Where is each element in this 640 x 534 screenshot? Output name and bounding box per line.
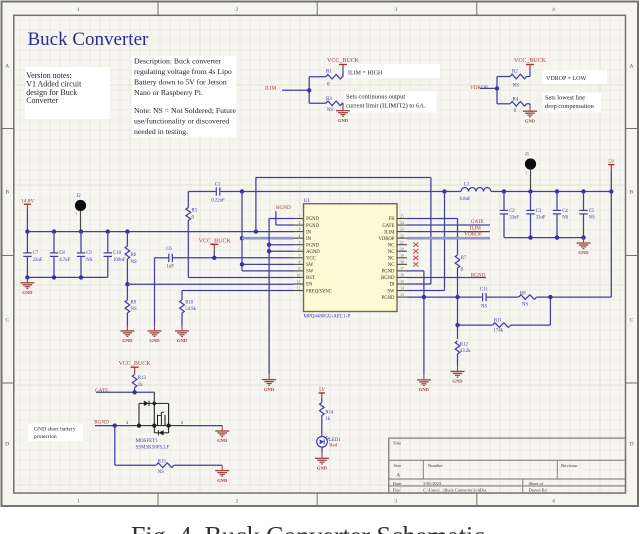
svg-text:R13: R13 — [138, 376, 147, 381]
svg-text:9: 9 — [299, 267, 301, 271]
node bus R6 — [125, 229, 129, 233]
LED LED1 Red — [317, 437, 328, 448]
resistor R1 — [326, 74, 343, 79]
svg-text:Description: Buck converter: Description: Buck converter — [134, 57, 222, 66]
resistor R14 — [321, 399, 323, 403]
svg-text:5/01/2023: 5/01/2023 — [423, 481, 442, 486]
svg-text:Date:: Date: — [393, 481, 403, 486]
svg-text:Sheet of: Sheet of — [529, 481, 544, 486]
svg-text:RGND: RGND — [94, 420, 109, 426]
svg-text:C1: C1 — [215, 182, 221, 187]
capacitor C7 — [26, 232, 28, 253]
wire pin5 row — [269, 244, 293, 246]
svg-text:GND: GND — [122, 338, 133, 343]
svg-text:R12: R12 — [460, 342, 469, 347]
svg-text:RGND: RGND — [381, 276, 395, 281]
svg-text:NS: NS — [131, 260, 137, 265]
ground R12 — [457, 366, 459, 371]
wire ILIM junction vertical — [308, 77, 310, 104]
svg-text:C5: C5 — [589, 209, 595, 214]
svg-text:4: 4 — [552, 499, 555, 505]
svg-text:R5: R5 — [192, 209, 198, 214]
node bus C10 — [106, 229, 110, 233]
wire rail left — [188, 191, 216, 193]
node AGND pin5 — [267, 243, 271, 247]
node pgnd13 b — [455, 295, 459, 299]
capacitor C1 — [215, 187, 217, 195]
wire C6 branch to ground — [154, 258, 156, 326]
svg-text:PGND: PGND — [306, 224, 319, 229]
svg-text:LED1: LED1 — [329, 438, 342, 443]
svg-text:IN: IN — [306, 237, 312, 242]
svg-text:R15: R15 — [158, 459, 167, 464]
text note sets lowest line — [543, 93, 601, 113]
node IN thick — [240, 236, 244, 240]
resistor R13 — [134, 373, 136, 376]
svg-text:20: 20 — [400, 247, 404, 251]
wire DI to pin — [407, 283, 431, 285]
text note gnd short protection — [28, 424, 83, 442]
wire BST row — [188, 276, 293, 278]
svg-text:C2: C2 — [509, 209, 515, 214]
svg-text:GND: GND — [419, 387, 430, 392]
wire VDROP row thick — [407, 237, 490, 240]
svg-text:PGND: PGND — [306, 243, 319, 248]
ground R9 — [126, 326, 128, 331]
text note VDROP = LOW — [543, 70, 607, 84]
svg-text:24: 24 — [400, 221, 404, 225]
ground (VDROP block) — [529, 104, 531, 106]
wire rgnd drop — [114, 426, 116, 466]
svg-text:11: 11 — [297, 280, 301, 284]
svg-text:100nF: 100nF — [113, 258, 126, 263]
svg-text:3: 3 — [394, 499, 397, 505]
wire top link horizontal — [256, 177, 431, 179]
svg-text:D: D — [5, 442, 9, 448]
svg-text:Sets lowest line: Sets lowest line — [545, 95, 585, 102]
node pgnd13 a — [422, 295, 426, 299]
svg-text:1uF: 1uF — [167, 265, 175, 270]
title block — [389, 438, 626, 493]
svg-text:Red: Red — [329, 444, 338, 449]
svg-text:GATE: GATE — [95, 388, 108, 394]
svg-text:VCC: VCC — [306, 257, 316, 262]
node R11 junction — [455, 323, 459, 327]
svg-text:1: 1 — [77, 499, 80, 505]
wire ILIM row — [407, 231, 490, 233]
node rgnd junction — [113, 423, 117, 427]
wire VDROP junction vertical — [496, 77, 498, 104]
ground (ILIM block) — [342, 103, 344, 105]
svg-text:GND: GND — [149, 338, 160, 343]
resistor R4 — [497, 103, 510, 105]
svg-text:J2: J2 — [76, 194, 81, 199]
svg-text:NS: NS — [158, 470, 164, 475]
svg-text:FREQ/SYNC: FREQ/SYNC — [306, 289, 332, 294]
svg-text:14: 14 — [400, 287, 404, 291]
node fb div — [548, 295, 552, 299]
wire C1 junction down — [241, 192, 243, 271]
svg-text:8: 8 — [299, 260, 301, 264]
text note ILIM = HIGH — [344, 64, 440, 78]
wire gate row — [96, 391, 154, 393]
node bus C9 — [79, 229, 83, 233]
svg-text:C:\Users\ ..\Buck Converter.Sc: C:\Users\ ..\Buck Converter.SchDoc — [423, 488, 487, 493]
svg-text:Battery down to 5V for Jetson: Battery down to 5V for Jetson — [134, 78, 227, 87]
wire SW to pin — [407, 290, 445, 292]
svg-text:R9: R9 — [131, 300, 137, 305]
svg-text:NC: NC — [388, 250, 395, 255]
svg-text:C4: C4 — [562, 209, 568, 214]
node bottom bus C8 — [52, 275, 56, 279]
svg-text:VDROP: VDROP — [464, 231, 482, 237]
svg-text:C10: C10 — [113, 251, 122, 256]
svg-text:R4: R4 — [513, 98, 519, 103]
svg-text:NC: NC — [388, 257, 395, 262]
svg-text:12: 12 — [297, 287, 301, 291]
capacitor C6 — [168, 254, 170, 262]
ground R10 — [181, 326, 183, 331]
wire R11 row — [458, 324, 493, 326]
node bottom bus C9 — [79, 275, 83, 279]
capacitor C2 — [503, 192, 505, 211]
svg-text:2: 2 — [126, 420, 128, 425]
svg-text:SW: SW — [306, 263, 314, 268]
svg-text:GATE: GATE — [382, 224, 394, 229]
capacitor C9 — [80, 232, 82, 253]
node rail x444 — [442, 189, 446, 193]
wire gnd drop x424 — [423, 297, 425, 374]
svg-text:4.7uF: 4.7uF — [59, 258, 70, 263]
svg-text:23: 23 — [400, 228, 404, 232]
svg-text:1: 1 — [299, 215, 301, 219]
svg-text:Title: Title — [393, 440, 402, 445]
svg-text:SW: SW — [306, 270, 314, 275]
wire C11 to R8 — [486, 296, 518, 298]
wire DI vertical — [430, 178, 432, 285]
svg-text:4: 4 — [552, 7, 555, 13]
svg-text:Size: Size — [393, 463, 401, 468]
resistor R8 — [519, 295, 537, 300]
svg-text:Nano or Raspberry Pi.: Nano or Raspberry Pi. — [134, 88, 203, 97]
svg-text:R7: R7 — [461, 256, 467, 261]
svg-text:3: 3 — [299, 228, 301, 232]
svg-text:7: 7 — [299, 254, 301, 258]
node obus C5 — [581, 235, 585, 239]
svg-text:GND: GND — [22, 290, 33, 295]
svg-text:R14: R14 — [325, 410, 334, 415]
ground mosfet — [221, 426, 223, 431]
svg-text:GND: GND — [317, 466, 328, 471]
resistor R12 — [455, 341, 460, 354]
svg-text:4: 4 — [299, 234, 301, 238]
svg-text:R3: R3 — [326, 97, 332, 102]
svg-text:1: 1 — [75, 213, 77, 217]
svg-text:2: 2 — [299, 221, 301, 225]
resistor R15 — [156, 463, 174, 468]
wire PGND17 corner — [407, 270, 424, 272]
svg-text:GND: GND — [217, 438, 228, 443]
svg-text:VDROP: VDROP — [379, 237, 395, 242]
svg-text:NS: NS — [86, 258, 92, 263]
wire R15 row right — [174, 464, 222, 466]
node SW row8 — [240, 262, 244, 266]
node out 5V — [609, 189, 613, 193]
svg-text:FB: FB — [389, 217, 395, 222]
resistor R11 — [493, 323, 511, 328]
svg-text:0.22uF: 0.22uF — [211, 199, 225, 204]
svg-text:drop compensation: drop compensation — [545, 103, 595, 110]
svg-text:10: 10 — [297, 274, 301, 278]
svg-text:Drawn By:: Drawn By: — [529, 488, 548, 493]
ground R15 — [221, 465, 223, 470]
svg-text:A: A — [629, 64, 633, 70]
svg-text:SSM3K56FS,LF: SSM3K56FS,LF — [136, 445, 170, 450]
wire top link vertical — [255, 178, 257, 232]
wire 5V net vertical — [610, 171, 612, 297]
resistor R10 — [181, 291, 183, 300]
svg-text:ILIM: ILIM — [265, 86, 277, 92]
node bus C7 — [25, 229, 29, 233]
svg-text:NS: NS — [327, 108, 334, 113]
svg-text:IN: IN — [306, 230, 312, 235]
wire 14.8V to bus — [26, 211, 28, 232]
svg-text:5: 5 — [299, 241, 301, 245]
svg-text:GND: GND — [338, 118, 349, 123]
svg-text:GND: GND — [578, 250, 589, 255]
svg-text:15: 15 — [400, 280, 404, 284]
svg-text:Note: NS = Not Soldered; Futur: Note: NS = Not Soldered; Future — [134, 106, 237, 115]
node bus SW-col — [254, 229, 258, 233]
wire GATE row — [407, 224, 490, 226]
node obus C3 — [528, 235, 532, 239]
wire R11 to riser — [511, 324, 551, 326]
svg-text:NS: NS — [562, 216, 568, 221]
svg-text:C3: C3 — [536, 209, 542, 214]
resistor R9 — [126, 284, 128, 300]
svg-text:21: 21 — [400, 241, 404, 245]
svg-text:needed in testing.: needed in testing. — [134, 127, 188, 136]
svg-text:NS: NS — [513, 83, 520, 88]
svg-text:VDROP = LOW: VDROP = LOW — [546, 76, 586, 82]
svg-text:Converter: Converter — [26, 96, 58, 105]
wire SW row8 — [242, 263, 294, 265]
svg-text:protection: protection — [34, 434, 57, 440]
svg-text:NS: NS — [131, 307, 137, 312]
svg-text:174k: 174k — [493, 328, 503, 333]
resistor R2 — [510, 74, 527, 79]
svg-text:NS: NS — [589, 216, 595, 221]
svg-text:VCC_BUCK: VCC_BUCK — [514, 58, 547, 64]
wire input bottom bus — [27, 276, 107, 278]
svg-text:VCC_BUCK: VCC_BUCK — [119, 361, 152, 367]
node bottom bus C7 — [25, 275, 29, 279]
ground C6 branch — [154, 326, 156, 331]
wire R8 to corner — [537, 296, 612, 298]
svg-text:GND: GND — [525, 118, 536, 123]
svg-text:EN: EN — [306, 283, 313, 288]
wire RGND row — [407, 276, 486, 278]
svg-text:GATE: GATE — [471, 219, 484, 225]
svg-text:19: 19 — [400, 254, 404, 258]
wire R2 to VCC_BUCK — [529, 71, 531, 77]
svg-text:1k: 1k — [138, 383, 143, 388]
resistor R7 — [455, 255, 460, 268]
svg-text:R1: R1 — [326, 70, 332, 75]
svg-text:54.9k: 54.9k — [185, 307, 196, 312]
wire L1 to output — [491, 191, 611, 193]
svg-text:R8: R8 — [520, 291, 526, 296]
wire rail C1 to L1 — [220, 191, 461, 193]
inductor L1 — [461, 188, 491, 192]
node rail x242 — [240, 189, 244, 193]
svg-text:A: A — [397, 473, 401, 478]
node R6-EN — [125, 282, 129, 286]
text note version box — [25, 67, 110, 119]
svg-text:13: 13 — [400, 293, 404, 297]
svg-text:43.2k: 43.2k — [460, 349, 471, 354]
svg-text:C6: C6 — [166, 247, 172, 252]
node ILIM junction — [307, 88, 311, 92]
wire SW riser — [444, 192, 446, 291]
svg-text:A: A — [5, 64, 9, 70]
svg-text:6: 6 — [299, 247, 301, 251]
svg-text:C: C — [630, 318, 634, 324]
node AGND pin6 — [267, 249, 271, 253]
svg-text:B: B — [5, 190, 9, 196]
svg-text:C8: C8 — [59, 251, 65, 256]
svg-text:MPQ4480GU-AEC1-P: MPQ4480GU-AEC1-P — [304, 315, 351, 320]
wire pin6 row — [269, 250, 293, 252]
wire long AGND vertical — [268, 219, 270, 375]
wire PGND13 row — [407, 296, 483, 298]
svg-text:1k: 1k — [325, 417, 330, 422]
svg-text:RGND: RGND — [276, 205, 291, 211]
svg-text:Sets continuous output: Sets continuous output — [346, 94, 405, 101]
svg-text:L1: L1 — [464, 183, 470, 188]
wire input top bus — [27, 231, 293, 233]
svg-text:Buck Converter: Buck Converter — [28, 29, 150, 50]
wire output bottom bus — [504, 237, 584, 239]
svg-text:C11: C11 — [480, 288, 488, 293]
svg-text:PGND: PGND — [382, 296, 395, 301]
ground output — [583, 238, 585, 243]
wire FB drop — [457, 297, 459, 339]
node out C4 — [555, 189, 559, 193]
wire LED to gnd — [321, 447, 323, 453]
svg-text:GND: GND — [452, 379, 463, 384]
svg-text:R2: R2 — [512, 69, 518, 74]
wire VCC row right — [172, 257, 293, 259]
wire R15 row left — [115, 464, 156, 466]
svg-text:33uF: 33uF — [536, 216, 546, 221]
svg-text:3: 3 — [394, 7, 397, 13]
op-amp U1 buck regulator MPQ4480GU-AEC1-P — [304, 204, 398, 312]
wire VCC row left — [155, 257, 169, 259]
svg-text:GND: GND — [264, 387, 275, 392]
svg-text:Fig. 4. Buck Converter Schem: Fig. 4. Buck Converter Schematic — [131, 522, 485, 534]
wire IN thick row — [242, 237, 294, 240]
svg-text:25: 25 — [400, 215, 404, 219]
resistor R5 — [187, 192, 189, 208]
svg-text:use/functionality or discovere: use/functionality or discovered — [134, 117, 229, 126]
svg-text:GND short battery: GND short battery — [34, 427, 76, 433]
capacitor C5 — [583, 192, 585, 211]
transistor MOSFET1 SSM3K56FS,LF — [153, 392, 155, 403]
svg-text:PGND: PGND — [382, 270, 395, 275]
svg-text:U1: U1 — [304, 198, 311, 204]
capacitor C11 — [482, 293, 484, 301]
svg-text:AGND: AGND — [306, 250, 320, 255]
wire PGND pin1 corner — [269, 218, 293, 220]
capacitor C3 — [530, 192, 532, 211]
wire SW row9 corner — [242, 270, 294, 272]
svg-text:C: C — [5, 318, 9, 324]
wire FB corner — [407, 218, 458, 220]
resistor R6 — [126, 232, 128, 246]
svg-text:BST: BST — [306, 276, 315, 281]
svg-text:NC: NC — [388, 243, 395, 248]
svg-text:16: 16 — [400, 274, 404, 278]
ground LED — [321, 453, 323, 458]
capacitor C10 — [107, 232, 109, 253]
wire EN row — [127, 283, 293, 285]
ground AGND column — [268, 374, 270, 379]
svg-text:PGND: PGND — [306, 217, 319, 222]
text note description box — [132, 56, 236, 137]
wire R1 to VCC_BUCK — [342, 71, 344, 77]
svg-text:ILIM: ILIM — [384, 230, 395, 235]
text note sets continuous output — [344, 92, 436, 113]
svg-text:33uF: 33uF — [509, 216, 519, 221]
no-connect X marks — [413, 243, 418, 247]
svg-text:2: 2 — [236, 7, 239, 13]
svg-text:ILIM = HIGH: ILIM = HIGH — [348, 71, 383, 77]
svg-text:MOSFET1: MOSFET1 — [136, 439, 159, 444]
svg-text:current limit (ILIMIT2) to 6A.: current limit (ILIMIT2) to 6A. — [346, 103, 426, 110]
svg-text:GND: GND — [217, 478, 228, 483]
svg-text:C7: C7 — [33, 251, 39, 256]
svg-text:2: 2 — [236, 499, 239, 505]
node out C5 — [581, 189, 585, 193]
ground mid — [423, 375, 425, 380]
svg-text:VCC_BUCK: VCC_BUCK — [327, 58, 360, 64]
capacitor C4 — [556, 192, 558, 211]
svg-text:R10: R10 — [185, 300, 194, 305]
svg-text:NS: NS — [481, 304, 487, 309]
svg-text:17: 17 — [400, 267, 404, 271]
svg-text:J1: J1 — [525, 152, 530, 157]
node VDROP junction — [495, 86, 499, 90]
node out C2 — [502, 189, 506, 193]
svg-text:GND: GND — [177, 338, 188, 343]
wire FREQ row — [182, 290, 294, 292]
svg-text:Revision: Revision — [561, 463, 578, 468]
resistor R3 — [309, 102, 326, 104]
svg-text:R6: R6 — [131, 253, 137, 258]
svg-text:SW: SW — [387, 289, 395, 294]
svg-text:C9: C9 — [86, 251, 92, 256]
svg-text:NS: NS — [522, 303, 528, 308]
wire mosfet drain out — [184, 425, 222, 427]
svg-text:6.8uF: 6.8uF — [460, 197, 471, 202]
svg-text:NC: NC — [388, 263, 395, 268]
svg-text:1: 1 — [77, 7, 80, 13]
svg-text:R11: R11 — [494, 318, 502, 323]
ground input — [26, 277, 28, 282]
svg-text:22uF: 22uF — [33, 258, 43, 263]
node VCC junction — [212, 256, 216, 260]
